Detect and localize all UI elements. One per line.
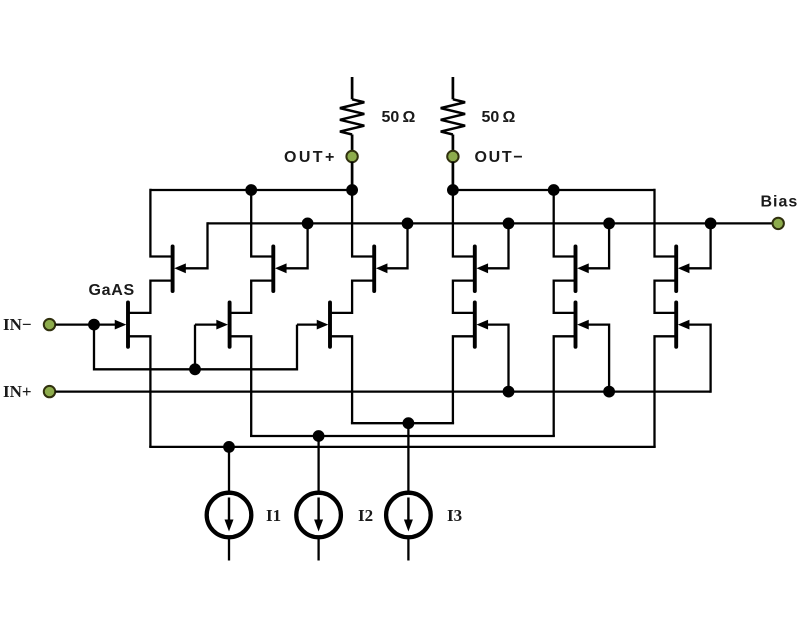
junction bias rail / cell6 gate [705,218,717,230]
junction bias rail / cell5 gate [603,218,615,230]
current source I1 arrow [228,498,230,522]
gate arrow Q5b [577,320,589,330]
wire cell5 source-drain link [554,281,574,313]
wire OUT- drain rail [453,189,655,191]
terminal OUT+ [346,151,357,162]
wire cell3 lower source [331,336,352,423]
current source I3 arrow [407,498,409,522]
svg-text:IN−: IN− [3,315,32,334]
wire Q2b gate riser [194,325,196,370]
junction IN+ / Q5b gate [603,386,615,398]
gate arrow Q6b [678,320,690,330]
transistor Q5a upper bar [574,246,578,291]
wire cell5 upper gate [588,222,609,268]
wire OUT+ drain rail [150,189,352,191]
transistor Q5b lower bar [574,303,578,347]
transistor Q4b lower bar [473,303,477,347]
wire cell4 upper drain [453,189,473,257]
wire cell1 upper drain [150,189,171,257]
current source I2 arrow [317,498,319,522]
wire cell4 lower source [453,336,473,423]
wire cell6 lower gate [689,325,711,393]
transistor Q4a upper bar [473,246,477,291]
gate arrow Q3a [376,263,388,273]
wire cell4 upper gate [487,222,508,268]
junction top rail / cell2 drain [245,184,257,196]
wire I1 tail [228,538,230,560]
terminal Bias [773,218,784,229]
wire IN- to Q1b gate [94,323,115,325]
junction I1 rail [223,441,235,453]
transistor Q3b lower bar [328,303,332,347]
transistor Q3a upper bar [372,246,376,291]
wire cell2 upper gate [286,222,308,268]
junction top rail / OUT+ [346,184,358,196]
wire cell2 upper drain [251,189,272,257]
gate arrow Q1a [174,263,186,273]
svg-text:OUT−: OUT− [475,149,525,166]
svg-text:50 Ω: 50 Ω [382,109,416,126]
wire R1 top stub [351,77,354,99]
junction bias rail / cell3 gate [402,218,414,230]
wire I2 tail [317,538,319,560]
wire R2 to OUT terminal [452,135,455,152]
wire IN- lower branch [94,325,297,370]
wire IN+ line [56,390,711,392]
wire I3 feed [407,423,409,491]
wire OUT+ to top rail [351,162,354,191]
wire cell2 source-drain link [231,281,272,313]
transistor Q6a upper bar [674,246,678,291]
junction I2 rail [313,430,325,442]
junction top rail / cell5 drain [548,184,560,196]
wire I2 rail [250,435,555,437]
resistor R1 50ohm [340,99,364,134]
wire OUT- to top rail [452,162,455,191]
wire cell1 lower source [129,336,150,447]
gate arrow Q2a [275,263,287,273]
junction IN+ / Q4b gate [503,386,515,398]
wire cell6 upper gate [689,222,711,268]
wire R2 top stub [452,77,455,99]
wire R1 to OUT terminal [351,135,354,152]
wire cell5 upper drain [554,189,574,257]
wire cell4 lower gate [487,325,508,393]
wire cell5 lower source [554,336,574,436]
gate arrow Q5a [577,263,589,273]
wire I1 rail [149,446,656,448]
junction IN- branch / Q2b gate [189,363,201,375]
junction IN- split [88,319,100,331]
gate arrow Q2b [216,320,228,330]
terminal IN+ [44,386,55,397]
transistor Q1b lower bar [126,303,130,347]
junction bias rail / cell2 gate [302,218,314,230]
svg-text:I2: I2 [358,506,373,525]
wire cell1 source-drain link [129,281,171,313]
resistor R2 50ohm [441,99,465,134]
wire cell1 upper gate [185,222,207,268]
current source I3 circle [386,493,431,538]
wire I3 tail [407,538,409,560]
svg-text:OUT+: OUT+ [284,149,337,166]
svg-text:Bias: Bias [761,194,799,211]
wire cell3 upper gate [387,222,408,268]
current source I2 circle [296,493,341,538]
svg-text:IN+: IN+ [3,382,32,401]
gate arrow Q3b [317,320,329,330]
gate arrow Q4a [476,263,488,273]
svg-text:50 Ω: 50 Ω [482,109,516,126]
junction I3 rail [403,417,415,429]
wire cell6 upper drain [655,189,675,257]
wire I1 feed [228,447,230,492]
wire I3 rail [351,422,454,424]
transistor Q1a upper bar [171,246,175,291]
transistor Q2a upper bar [271,246,275,291]
terminal IN- [44,319,55,330]
junction bias rail / cell4 gate [503,218,515,230]
current source I1 circle [207,493,252,538]
transistor Q6b lower bar [674,303,678,347]
gate arrow Q4b [476,320,488,330]
wire I2 feed [317,436,319,492]
wire cell6 lower source [655,336,675,447]
wire cell5 lower gate [588,325,609,393]
wire bias rail [208,222,773,224]
transistor Q2b lower bar [228,303,232,347]
gate arrow Q1b [115,320,127,330]
svg-text:I1: I1 [266,506,281,525]
wire Q3b gate [297,323,317,325]
wire cell3 source-drain link [331,281,372,313]
svg-text:I3: I3 [447,506,462,525]
wire IN- to junction [56,323,95,325]
junction top rail / OUT- [447,184,459,196]
wire cell4 source-drain link [453,281,473,313]
terminal OUT- [447,151,458,162]
wire cell6 source-drain link [655,281,675,313]
wire cell3 upper drain [352,189,373,257]
wire cell2 lower source [231,336,251,436]
wire Q2b gate [195,323,217,325]
svg-text:GaAS: GaAS [89,282,135,299]
gate arrow Q6a [678,263,690,273]
